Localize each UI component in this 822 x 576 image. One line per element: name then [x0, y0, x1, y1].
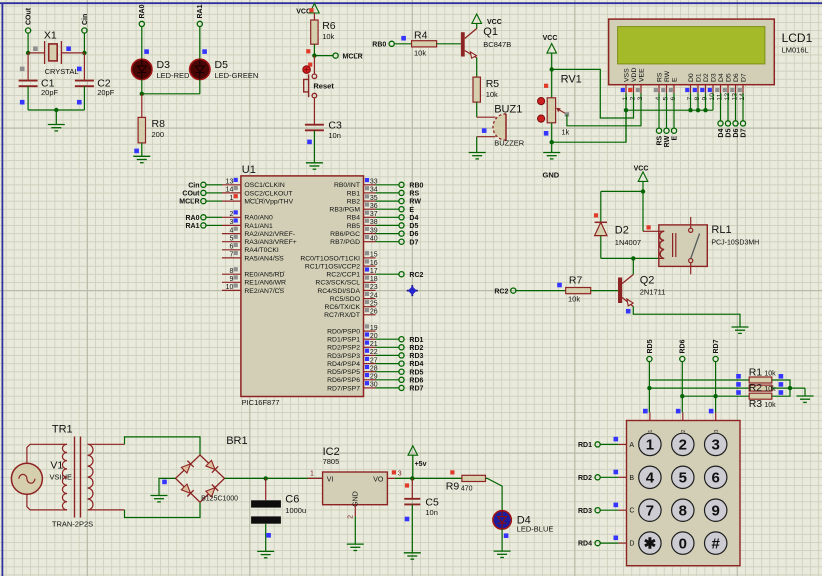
svg-text:10k: 10k: [764, 402, 776, 409]
svg-text:VSS: VSS: [623, 68, 630, 82]
svg-text:MCLR: MCLR: [179, 199, 199, 206]
svg-text:3: 3: [714, 430, 720, 433]
svg-text:VCC: VCC: [634, 166, 649, 173]
svg-text:RA0/AN0: RA0/AN0: [244, 215, 273, 222]
svg-text:Q1: Q1: [483, 26, 498, 38]
svg-text:R5: R5: [486, 78, 500, 90]
svg-text:7: 7: [646, 503, 654, 520]
svg-text:10k: 10k: [568, 295, 580, 304]
svg-text:10k: 10k: [486, 90, 498, 99]
svg-text:RD5: RD5: [647, 339, 654, 353]
svg-text:D0: D0: [688, 73, 695, 82]
svg-text:5: 5: [662, 97, 669, 101]
svg-text:+5v: +5v: [415, 461, 427, 468]
svg-text:D7: D7: [740, 73, 747, 82]
svg-text:BUZZER: BUZZER: [494, 139, 525, 148]
svg-text:2: 2: [347, 515, 354, 519]
svg-text:RD1: RD1: [578, 442, 592, 449]
svg-text:10k: 10k: [764, 371, 776, 378]
svg-text:D4: D4: [718, 128, 725, 137]
svg-text:2: 2: [681, 430, 687, 433]
svg-text:RC4/SDI/SDA: RC4/SDI/SDA: [317, 288, 360, 295]
svg-text:13: 13: [226, 179, 234, 186]
svg-text:Q2: Q2: [640, 275, 655, 287]
svg-text:2: 2: [229, 211, 233, 218]
svg-text:C5: C5: [425, 497, 439, 509]
svg-text:RA1: RA1: [197, 4, 204, 18]
svg-text:RS: RS: [656, 135, 663, 145]
svg-text:RA2/AN2/VREF-: RA2/AN2/VREF-: [244, 231, 295, 238]
svg-text:COut: COut: [26, 7, 33, 25]
svg-text:RD4: RD4: [409, 361, 423, 368]
svg-text:D5: D5: [725, 128, 732, 137]
svg-text:R4: R4: [414, 30, 428, 42]
svg-text:VI: VI: [327, 476, 334, 483]
svg-text:RA1: RA1: [185, 223, 199, 230]
svg-text:R8: R8: [152, 118, 166, 130]
svg-text:LED-BLUE: LED-BLUE: [517, 525, 554, 534]
svg-text:10n: 10n: [425, 508, 438, 517]
svg-text:8: 8: [679, 503, 687, 520]
svg-text:X1: X1: [44, 30, 57, 42]
svg-text:16: 16: [370, 260, 378, 267]
svg-text:RD1/PSP1: RD1/PSP1: [327, 337, 360, 344]
svg-text:3: 3: [712, 437, 720, 454]
svg-text:VO: VO: [373, 476, 384, 483]
svg-text:RA0: RA0: [139, 4, 146, 18]
svg-text:7: 7: [686, 97, 693, 101]
svg-text:V1: V1: [50, 460, 63, 472]
svg-text:GND: GND: [353, 491, 360, 507]
svg-text:RB0: RB0: [372, 42, 386, 49]
svg-text:R2: R2: [749, 382, 763, 394]
svg-text:25: 25: [370, 301, 378, 308]
svg-text:14: 14: [226, 187, 234, 194]
svg-text:D2: D2: [703, 73, 710, 82]
svg-text:RE0/AN5/RD: RE0/AN5/RD: [244, 272, 284, 279]
svg-text:RD7: RD7: [409, 386, 423, 393]
svg-text:RB1: RB1: [347, 190, 360, 197]
svg-text:D5: D5: [725, 73, 732, 82]
svg-text:2: 2: [629, 97, 636, 101]
svg-text:RD2/PSP2: RD2/PSP2: [327, 345, 360, 352]
svg-text:RB0: RB0: [409, 182, 423, 189]
svg-text:RB4: RB4: [347, 215, 360, 222]
svg-text:RC2/CCP1: RC2/CCP1: [326, 272, 360, 279]
svg-text:3: 3: [398, 471, 402, 478]
svg-text:4: 4: [646, 470, 655, 487]
svg-text:TRAN-2P2S: TRAN-2P2S: [52, 520, 93, 529]
svg-text:R9: R9: [446, 481, 460, 493]
svg-text:D4: D4: [409, 215, 418, 222]
svg-text:LED-GREEN: LED-GREEN: [215, 71, 259, 80]
svg-text:C: C: [629, 508, 634, 515]
svg-text:3: 3: [637, 97, 644, 101]
svg-text:20pF: 20pF: [41, 88, 59, 97]
svg-text:Reset: Reset: [313, 82, 334, 91]
svg-text:D3: D3: [710, 73, 717, 82]
svg-text:RC1/T1OSI/CCP2: RC1/T1OSI/CCP2: [305, 264, 360, 271]
svg-text:BC847B: BC847B: [483, 40, 511, 49]
svg-text:RC5/SDO: RC5/SDO: [330, 296, 360, 303]
svg-text:0: 0: [679, 535, 687, 552]
svg-text:1: 1: [229, 195, 233, 202]
svg-text:D3: D3: [157, 59, 171, 71]
svg-text:11: 11: [716, 93, 723, 100]
svg-text:6: 6: [712, 470, 720, 487]
svg-text:9: 9: [229, 276, 233, 283]
svg-text:E: E: [671, 77, 678, 82]
svg-text:15: 15: [370, 252, 378, 259]
svg-text:RW: RW: [664, 70, 671, 82]
svg-text:2: 2: [679, 437, 687, 454]
svg-text:VCC: VCC: [543, 35, 558, 42]
svg-text:9: 9: [712, 503, 720, 520]
svg-text:R6: R6: [322, 20, 336, 32]
svg-text:E: E: [409, 207, 414, 214]
svg-text:24: 24: [370, 292, 378, 299]
svg-text:COut: COut: [182, 191, 200, 198]
svg-text:D5: D5: [215, 59, 229, 71]
svg-text:RC0/T1OSO/T1CKI: RC0/T1OSO/T1CKI: [300, 255, 360, 262]
svg-text:19: 19: [370, 325, 378, 332]
svg-text:7: 7: [229, 252, 233, 259]
svg-text:RC6/TX/CK: RC6/TX/CK: [324, 304, 360, 311]
svg-text:8: 8: [229, 268, 233, 275]
svg-text:OSC1/CLKIN: OSC1/CLKIN: [244, 182, 285, 189]
svg-text:R7: R7: [569, 275, 583, 287]
svg-text:RD0/PSP0: RD0/PSP0: [327, 329, 360, 336]
svg-text:RA1/AN1: RA1/AN1: [244, 223, 273, 230]
svg-text:R3: R3: [749, 398, 763, 410]
svg-text:RD3/PSP3: RD3/PSP3: [327, 353, 360, 360]
svg-text:RD3: RD3: [578, 508, 592, 515]
svg-text:4: 4: [229, 227, 233, 234]
svg-text:OSC2/CLKOUT: OSC2/CLKOUT: [244, 190, 292, 197]
svg-text:D7: D7: [740, 128, 747, 137]
svg-text:RB0/INT: RB0/INT: [334, 182, 360, 189]
svg-text:20pF: 20pF: [97, 88, 115, 97]
svg-text:26: 26: [370, 309, 378, 316]
svg-text:RV1: RV1: [561, 74, 582, 86]
svg-text:VCC: VCC: [487, 19, 502, 26]
svg-text:RE1/AN6/WR: RE1/AN6/WR: [244, 280, 286, 287]
svg-text:RD2: RD2: [578, 475, 592, 482]
svg-text:BUZ1: BUZ1: [494, 104, 522, 116]
svg-text:RA4/T0CKI: RA4/T0CKI: [244, 247, 278, 254]
svg-text:RB7/PGD: RB7/PGD: [330, 239, 360, 246]
svg-text:D6: D6: [733, 128, 740, 137]
svg-text:MCLR/Vpp/THV: MCLR/Vpp/THV: [244, 199, 293, 206]
svg-text:B: B: [629, 475, 634, 482]
svg-text:10: 10: [709, 93, 716, 101]
svg-text:RS: RS: [656, 72, 663, 82]
svg-text:D7: D7: [409, 239, 418, 246]
svg-text:D1: D1: [695, 73, 702, 82]
svg-text:1k: 1k: [561, 128, 569, 137]
svg-text:Cin: Cin: [188, 182, 199, 189]
svg-text:9: 9: [701, 97, 708, 101]
svg-text:C3: C3: [328, 120, 342, 132]
svg-text:2N1711: 2N1711: [640, 288, 666, 297]
svg-text:10k: 10k: [414, 49, 426, 58]
svg-text:1: 1: [310, 471, 314, 478]
svg-text:B125C1000: B125C1000: [201, 496, 238, 503]
svg-text:RD4: RD4: [578, 541, 592, 548]
svg-text:1: 1: [648, 430, 654, 433]
svg-text:✱: ✱: [644, 535, 657, 552]
svg-text:6: 6: [229, 244, 233, 251]
svg-text:RA5/AN4/SS: RA5/AN4/SS: [244, 255, 284, 262]
svg-text:PCJ-10SD3MH: PCJ-10SD3MH: [711, 240, 759, 247]
svg-text:RS: RS: [409, 191, 419, 198]
svg-text:RD3: RD3: [409, 353, 423, 360]
svg-text:RB5: RB5: [347, 223, 360, 230]
svg-text:D: D: [629, 541, 634, 548]
svg-text:RC7/RX/DT: RC7/RX/DT: [324, 312, 360, 319]
svg-text:LM016L: LM016L: [782, 46, 809, 55]
svg-text:BR1: BR1: [226, 435, 247, 447]
svg-text:12: 12: [724, 93, 731, 101]
svg-text:RD5: RD5: [409, 369, 423, 376]
svg-text:18: 18: [370, 276, 378, 283]
svg-text:CRYSTAL: CRYSTAL: [45, 67, 79, 76]
svg-text:1N4007: 1N4007: [615, 238, 641, 247]
svg-text:RL1: RL1: [711, 224, 731, 236]
svg-text:RB6/PGC: RB6/PGC: [330, 231, 360, 238]
svg-text:RD6/PSP6: RD6/PSP6: [327, 377, 360, 384]
svg-text:A: A: [629, 442, 634, 449]
svg-text:VDD: VDD: [631, 68, 638, 82]
svg-text:1: 1: [622, 97, 629, 101]
svg-text:RD5/PSP5: RD5/PSP5: [327, 369, 360, 376]
svg-text:RA3/AN3/VREF+: RA3/AN3/VREF+: [244, 239, 296, 246]
svg-text:RD2: RD2: [409, 345, 423, 352]
svg-text:VEE: VEE: [638, 68, 645, 82]
svg-text:RB3/PGM: RB3/PGM: [329, 207, 360, 214]
svg-text:RB2: RB2: [347, 199, 360, 206]
svg-text:PIC16F877: PIC16F877: [242, 398, 280, 407]
svg-text:RD4/PSP4: RD4/PSP4: [327, 361, 360, 368]
svg-text:RC2: RC2: [409, 272, 423, 279]
svg-text:Cin: Cin: [82, 14, 89, 25]
svg-text:VCC: VCC: [296, 9, 311, 16]
svg-text:3: 3: [229, 219, 233, 226]
svg-text:6: 6: [670, 97, 677, 101]
svg-text:RA0: RA0: [185, 215, 199, 222]
svg-text:23: 23: [370, 284, 378, 291]
svg-text:RE2/AN7/CS: RE2/AN7/CS: [244, 288, 284, 295]
svg-text:1: 1: [646, 437, 654, 454]
svg-text:10n: 10n: [328, 131, 341, 140]
svg-text:D6: D6: [409, 231, 418, 238]
svg-text:7805: 7805: [323, 457, 340, 466]
svg-text:RW: RW: [664, 135, 671, 147]
svg-text:4: 4: [655, 97, 662, 101]
svg-text:U1: U1: [242, 164, 256, 176]
svg-text:10k: 10k: [322, 32, 334, 41]
svg-text:1000u: 1000u: [285, 506, 306, 515]
svg-text:D4: D4: [718, 73, 725, 82]
svg-text:D5: D5: [409, 223, 418, 230]
svg-text:200: 200: [152, 130, 165, 139]
svg-text:#: #: [712, 535, 721, 552]
svg-text:VSINE: VSINE: [50, 473, 73, 482]
svg-text:8: 8: [694, 97, 701, 101]
svg-text:C6: C6: [285, 494, 299, 506]
svg-text:RD6: RD6: [680, 339, 687, 353]
svg-text:13: 13: [731, 93, 738, 101]
svg-text:E: E: [671, 135, 678, 140]
svg-text:RC2: RC2: [494, 288, 508, 295]
svg-text:RD7: RD7: [713, 339, 720, 353]
svg-text:RC3/SCK/SCL: RC3/SCK/SCL: [315, 280, 360, 287]
svg-text:R1: R1: [749, 367, 763, 379]
svg-text:10: 10: [226, 284, 234, 291]
svg-text:LCD1: LCD1: [782, 31, 813, 45]
svg-text:RD6: RD6: [409, 377, 423, 384]
svg-text:MCLR: MCLR: [343, 53, 363, 60]
svg-text:5: 5: [229, 236, 233, 243]
svg-text:470: 470: [461, 486, 473, 493]
svg-text:D6: D6: [733, 73, 740, 82]
svg-text:TR1: TR1: [52, 424, 73, 436]
svg-text:D2: D2: [615, 225, 629, 237]
svg-text:RD1: RD1: [409, 337, 423, 344]
svg-text:GND: GND: [543, 171, 560, 180]
svg-text:LED-RED: LED-RED: [157, 71, 191, 80]
svg-text:10k: 10k: [764, 386, 776, 393]
svg-text:RW: RW: [409, 199, 421, 206]
svg-text:5: 5: [679, 470, 687, 487]
svg-text:14: 14: [739, 93, 746, 101]
svg-text:RD7/PSP7: RD7/PSP7: [327, 385, 360, 392]
